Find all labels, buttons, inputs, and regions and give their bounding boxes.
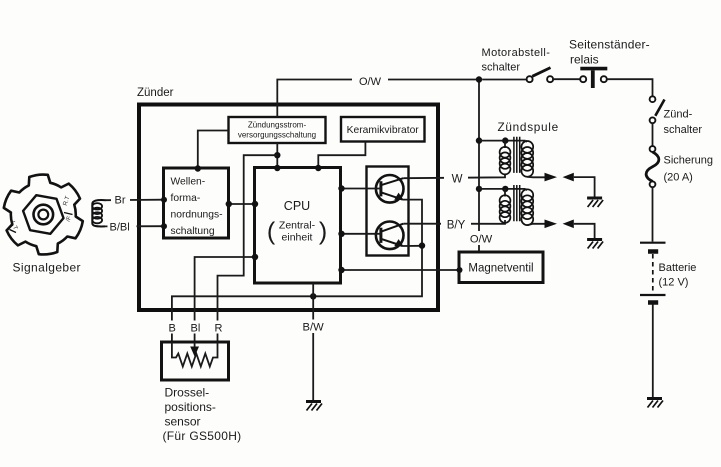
wire: O/W top feed line: [277, 80, 479, 118]
node on CPU top edge (vibrator): [315, 165, 321, 171]
node Magnetventil left: [457, 267, 463, 273]
label B: [166, 321, 178, 334]
wire: junction to throttle sensor R line: [218, 155, 278, 342]
igniter unit box (Zünder): [139, 105, 438, 311]
svg-text:B/Y: B/Y: [447, 220, 466, 232]
wire Br to waveform box: [106, 199, 164, 202]
svg-text:Drossel-: Drossel-: [165, 386, 210, 400]
svg-text:Bl: Bl: [191, 323, 201, 335]
ground (B/W): [306, 402, 322, 411]
node CPU right (valve): [338, 267, 344, 273]
signal generator rotor (Signalgeber): [4, 175, 83, 255]
node coil 1 feed: [476, 137, 482, 143]
wire B/Bl to waveform box: [105, 225, 164, 227]
svg-text:Magnetventil: Magnetventil: [468, 263, 533, 275]
wire: CPU left to Bl sensor wire: [195, 257, 255, 342]
svg-text:(: (: [267, 218, 276, 246]
box: Keramikvibrator: [341, 117, 425, 142]
box: ignition current supply circuit: [229, 117, 326, 143]
svg-text:Zentral-: Zentral-: [279, 220, 316, 232]
CPU box (Zentraleinheit): [255, 168, 341, 284]
label R: [212, 321, 225, 334]
wire: supply box left to waveform box top: [198, 131, 229, 169]
svg-text:B/Bl: B/Bl: [110, 222, 130, 234]
svg-text:versorgungsschaltung: versorgungsschaltung: [238, 131, 316, 140]
wire B/W down to ground: [312, 296, 314, 400]
svg-text:Seitenständer-: Seitenständer-: [569, 38, 650, 52]
box: waveform arranging circuit (Wellenformanordnungsschaltung): [164, 168, 229, 238]
rotor inner hexagon: [23, 195, 63, 234]
label B/Y: [441, 217, 471, 231]
battery 12V: [640, 243, 666, 397]
svg-text:schalter: schalter: [664, 124, 703, 136]
wire: supply box bottom to CPU top: [276, 143, 278, 168]
engine stop switch: [482, 68, 586, 83]
node top line: [476, 76, 482, 82]
node waveform left (B/Bl): [161, 223, 167, 229]
label Bl: [188, 321, 203, 334]
svg-text:O/W: O/W: [359, 76, 382, 88]
node CPU right Q1: [338, 185, 344, 191]
transistor Q1: [376, 175, 404, 203]
label W: [444, 170, 468, 185]
wire: O/W vertical feed to coils and solenoid valve: [478, 80, 480, 253]
svg-text:Zünd-: Zünd-: [664, 109, 693, 121]
wire: Keramikvibrator to CPU top: [318, 142, 365, 168]
wire: B/Y line Q2 collector to coil 2: [403, 220, 505, 224]
wire: CPU right to Q2 base: [341, 233, 382, 235]
ground (spark 2): [587, 240, 603, 249]
label O/W (solenoid branch): [466, 231, 497, 245]
node CPU left (Bl): [252, 254, 258, 260]
side stand relay plunger: [580, 69, 607, 88]
node CPU left: [252, 201, 258, 207]
svg-text:positions-: positions-: [165, 400, 216, 414]
tick mark R.T/F: [64, 213, 73, 215]
svg-text:einheit: einheit: [282, 232, 313, 244]
label B/W: [298, 320, 328, 334]
rotor hub circles: [34, 205, 54, 225]
wire: CPU bottom to ground bus: [312, 283, 314, 296]
node waveform left (Br): [161, 197, 167, 203]
label O/W (top line): [352, 73, 388, 88]
transistor array box: [367, 167, 409, 256]
spark gap 2: [545, 220, 595, 239]
node emitter junction: [419, 242, 425, 248]
svg-text:Zünder: Zünder: [137, 87, 174, 99]
svg-text:Motorabstell-: Motorabstell-: [482, 47, 551, 59]
svg-text:(Für GS500H): (Für GS500H): [163, 429, 242, 443]
node on waveform box top: [195, 165, 201, 171]
wire: CPU right to Q1 base: [341, 188, 382, 190]
svg-text:(20 A): (20 A): [664, 172, 693, 184]
svg-text:forma-: forma-: [171, 193, 201, 204]
ground (battery): [647, 399, 663, 408]
node junction below supply box: [274, 152, 280, 158]
svg-text:R: R: [215, 323, 223, 335]
svg-text:Zündungsstrom-: Zündungsstrom-: [248, 121, 307, 130]
label B/Bl: [108, 220, 137, 234]
wire: W line Q1 collector to coil 1: [403, 174, 505, 178]
fuse 20A: [646, 146, 659, 242]
node coil 2 feed: [476, 186, 482, 192]
node CPU right Q2: [338, 231, 344, 237]
label Br: [111, 193, 130, 206]
svg-text:schaltung: schaltung: [171, 226, 215, 237]
svg-text:Signalgeber: Signalgeber: [13, 261, 81, 275]
spark gap 1: [545, 173, 595, 197]
node waveform right: [226, 201, 232, 207]
wire: relay to ignition switch: [607, 79, 653, 96]
transistor Q2: [376, 222, 404, 250]
wire: Q1 emitter down to junction: [403, 200, 422, 246]
svg-text:W: W: [452, 174, 463, 186]
wiper arrow (Bl): [194, 342, 196, 348]
pickup coil: [92, 200, 106, 226]
wire: B sensor wire and emitter ground bus: [172, 246, 422, 342]
wire: waveform box to CPU: [229, 203, 255, 205]
ignition switch: [650, 96, 665, 146]
svg-text:CPU: CPU: [284, 199, 310, 213]
svg-text:B/W: B/W: [303, 322, 325, 334]
svg-text:Sicherung: Sicherung: [664, 155, 714, 167]
ground (spark 1): [587, 198, 603, 207]
svg-text:nordnungs-: nordnungs-: [171, 210, 223, 221]
tick mark L.T: [10, 230, 17, 233]
svg-text:): ): [319, 218, 327, 246]
svg-text:Keramikvibrator: Keramikvibrator: [347, 125, 420, 136]
svg-text:Zündspule: Zündspule: [498, 120, 559, 134]
wire: Q2 emitter to junction: [403, 245, 422, 247]
svg-text:B: B: [169, 323, 176, 335]
ignition coil 1: [479, 137, 545, 178]
ignition coil 2: [479, 185, 545, 225]
svg-text:schalter: schalter: [482, 62, 521, 74]
box: Magnetventil: [459, 252, 543, 283]
svg-text:Br: Br: [115, 195, 126, 207]
svg-text:relais: relais: [570, 53, 599, 67]
node on CPU top edge: [274, 165, 280, 171]
svg-text:Batterie: Batterie: [659, 262, 697, 274]
node B/W on ground bus: [310, 293, 316, 299]
svg-text:sensor: sensor: [165, 415, 201, 429]
box: throttle position sensor: [162, 342, 229, 380]
svg-text:O/W: O/W: [470, 234, 493, 246]
svg-text:(12 V): (12 V): [659, 277, 689, 289]
svg-text:Wellen-: Wellen-: [171, 177, 206, 188]
wire: CPU right to Magnetventil: [341, 269, 459, 271]
resistor track: [172, 342, 218, 367]
